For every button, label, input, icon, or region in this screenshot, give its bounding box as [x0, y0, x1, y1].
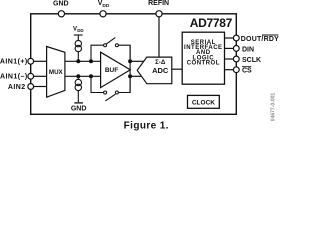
- pin circle REFIN: [156, 11, 162, 17]
- power symbol VDD (burnout current source top): [73, 27, 84, 41]
- svg-text:ADC: ADC: [152, 66, 169, 75]
- pin circle DIN: [233, 46, 239, 52]
- svg-text:Σ-Δ: Σ-Δ: [155, 59, 166, 66]
- adc block Sigma-Delta ADC: [137, 57, 172, 84]
- mux block MUX: [47, 47, 65, 98]
- pin circle VDD: [100, 11, 106, 17]
- switch S2 (bottom bypass): [91, 76, 130, 101]
- wire SCLK stub: [225, 58, 234, 60]
- junction dot (VDD source / top rail): [76, 59, 80, 63]
- svg-text:GND: GND: [71, 106, 87, 113]
- pin circle AIN1(-): [28, 73, 34, 79]
- svg-text:BUF: BUF: [105, 67, 118, 74]
- svg-text:Figure 1.: Figure 1.: [124, 121, 169, 132]
- chip outline AD7787: [31, 14, 237, 115]
- wire CS stub: [225, 69, 234, 71]
- wire AIN1(-) stub to MUX: [31, 75, 47, 77]
- current source I2 (bottom): [75, 76, 81, 102]
- pin circle SCLK: [233, 56, 239, 62]
- svg-text:SCLK: SCLK: [242, 57, 261, 64]
- pin circle DOUT/RDY: [233, 35, 239, 41]
- pin label REFIN (top): [148, 0, 169, 7]
- svg-text:DD: DD: [102, 3, 109, 9]
- switch S1 (top bypass): [91, 38, 130, 62]
- svg-text:GND: GND: [53, 1, 69, 8]
- svg-text:DD: DD: [77, 28, 83, 33]
- pin label CS (active low): [242, 67, 252, 75]
- pin label GND (top): [53, 1, 69, 8]
- pin circle CS: [233, 67, 239, 73]
- wire top rail MUX to BUF: [65, 60, 101, 62]
- pin label DOUT/RDY: [241, 35, 279, 43]
- wire BUF output bottom to ADC: [130, 75, 142, 77]
- pin label SCLK: [242, 57, 261, 64]
- ground symbol GND (bottom): [71, 103, 87, 113]
- svg-text:DOUT/RDY: DOUT/RDY: [241, 36, 279, 43]
- wire BUF output top to ADC: [130, 60, 144, 62]
- wire AIN1(+) stub to MUX: [31, 60, 47, 62]
- buffer amp BUF: [101, 52, 131, 87]
- pin label AIN2: [8, 84, 26, 91]
- current source I1 (top): [75, 40, 81, 61]
- wire AIN2 stub to MUX: [31, 86, 47, 88]
- junction dot (GND source / bottom rail): [76, 74, 80, 78]
- logic block SERIAL INTERFACE AND LOGIC CONTROL: [182, 32, 224, 84]
- svg-text:CONTROL: CONTROL: [187, 61, 220, 67]
- svg-text:MUX: MUX: [49, 69, 64, 76]
- svg-text:AIN2: AIN2: [8, 84, 26, 91]
- wire DOUT/RDY stub: [225, 37, 234, 39]
- part label AD7787: [190, 16, 233, 30]
- clock block CLOCK: [188, 95, 220, 108]
- wire REFIN to ADC: [158, 15, 160, 58]
- pin label AIN1(+): [0, 59, 28, 66]
- caption Figure 1.: [124, 121, 169, 132]
- wire bypass vertical (BUF output node): [129, 45, 131, 92]
- svg-text:04677-0-001: 04677-0-001: [271, 93, 277, 122]
- svg-text:AIN1(–): AIN1(–): [0, 74, 28, 81]
- svg-text:CS: CS: [242, 68, 252, 75]
- pin circle AIN1(+): [28, 58, 34, 64]
- pin circle GND: [58, 11, 64, 17]
- svg-text:AD7787: AD7787: [190, 16, 233, 30]
- svg-text:CLOCK: CLOCK: [192, 99, 215, 106]
- svg-text:DIN: DIN: [242, 47, 254, 54]
- svg-text:AIN1(+): AIN1(+): [0, 59, 28, 66]
- junction dot (bottom switch branch): [89, 74, 93, 78]
- wire DIN stub: [225, 47, 234, 49]
- pin label DIN: [242, 47, 254, 54]
- figure number code 04677-0-001: [271, 93, 277, 122]
- svg-text:REFIN: REFIN: [148, 0, 169, 7]
- junction dot (top switch branch): [89, 59, 93, 63]
- junction dot (bypass top / ADC wire): [128, 59, 132, 63]
- junction dot (bypass bottom / ADC wire): [128, 74, 132, 78]
- pin label AIN1(-): [0, 74, 28, 81]
- pin label VDD (top): [98, 0, 110, 9]
- pin circle AIN2: [28, 84, 34, 90]
- wire ADC to serial interface: [172, 68, 182, 70]
- wire bottom rail MUX to BUF: [65, 75, 101, 77]
